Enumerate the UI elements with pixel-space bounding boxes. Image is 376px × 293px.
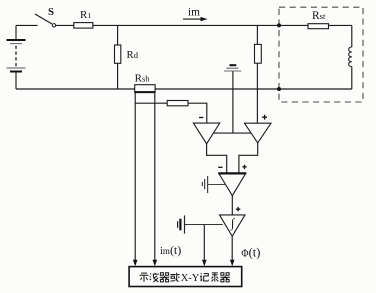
- svg-text:X-Y: X-Y: [181, 273, 200, 284]
- svg-text:Rst: Rst: [312, 10, 326, 22]
- svg-text:im: im: [188, 7, 200, 19]
- svg-text:Rd: Rd: [127, 49, 139, 61]
- svg-text:∫: ∫: [230, 216, 235, 231]
- svg-text:R1: R1: [80, 9, 91, 21]
- svg-text:im(t): im(t): [160, 243, 181, 257]
- svg-text:Rsh: Rsh: [135, 72, 151, 84]
- svg-text:Φ(t): Φ(t): [241, 246, 260, 260]
- svg-text:S: S: [48, 6, 54, 18]
